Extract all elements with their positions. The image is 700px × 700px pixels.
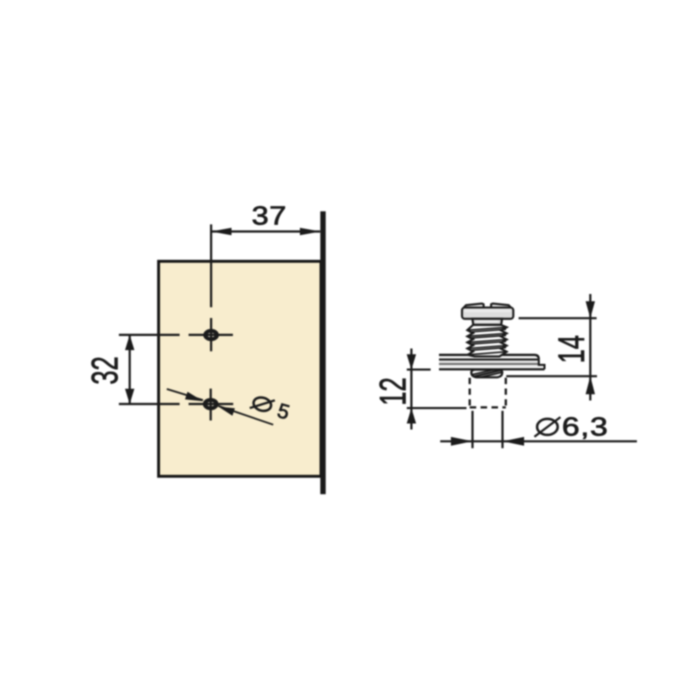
12 extension line top xyxy=(407,369,431,371)
plate seam line xyxy=(439,359,539,361)
svg-text:37: 37 xyxy=(252,202,287,230)
arrow right (left side) xyxy=(451,437,473,446)
extension line from upper hole to 37 dimension xyxy=(210,224,212,307)
14 extension line top xyxy=(519,317,597,319)
dashed hole outline bottom xyxy=(470,406,506,408)
dashed hole outline right xyxy=(505,378,507,408)
screw head highlight xyxy=(465,310,511,312)
plate inner shade band xyxy=(439,360,538,363)
O6,3 extension line right xyxy=(501,411,503,448)
plate right edge and tab xyxy=(539,359,545,369)
dimension line 14 xyxy=(589,294,591,401)
thread flank lines xyxy=(467,327,506,355)
leader line O5 lower segment xyxy=(218,406,273,425)
dimension line O6,3 left tail xyxy=(440,440,472,442)
dimension line 12 xyxy=(410,349,412,430)
arrow left (right side) xyxy=(503,437,525,446)
arrow up 12 (bottom, outside) xyxy=(407,408,416,423)
label O5 xyxy=(248,392,292,425)
lower hole crosshair xyxy=(189,403,234,405)
O6,3 extension line left xyxy=(471,411,473,448)
plate mid gray line xyxy=(439,363,539,365)
plate top edge xyxy=(439,355,539,359)
lower hole xyxy=(205,400,217,408)
arrow up 32 xyxy=(125,335,134,350)
leader arrow pointing at hole (upper-left) xyxy=(185,392,203,401)
upper hole xyxy=(205,331,217,339)
dashed hole outline left xyxy=(469,378,471,408)
12 extension line bottom xyxy=(407,407,467,409)
32 extension line upper xyxy=(119,334,180,336)
arrow up 14 (bottom, outside) xyxy=(586,376,595,394)
plate side view body fill xyxy=(439,355,545,369)
arrow left 37 xyxy=(211,228,231,236)
upper hole crosshair xyxy=(189,334,233,336)
32 extension line lower xyxy=(119,403,180,405)
arrow right 37 xyxy=(300,228,320,236)
svg-text:14: 14 xyxy=(550,335,592,363)
14 extension line bottom xyxy=(506,375,597,377)
svg-text:12: 12 xyxy=(371,377,413,405)
svg-text:6,3: 6,3 xyxy=(562,414,609,442)
dimension line 37 xyxy=(211,230,320,232)
screw head slot right wing xyxy=(491,304,511,308)
mounting plate front view (beige panel) xyxy=(159,261,321,476)
dimension line O6,3 right tail xyxy=(503,440,637,442)
screw head xyxy=(462,308,513,319)
screw head slot left wing xyxy=(464,304,484,308)
arrow down 14 (top, outside) xyxy=(586,301,595,318)
screw collar xyxy=(472,319,502,325)
dimension line 32 xyxy=(129,335,131,404)
arrow down 12 (top, outside) xyxy=(407,354,416,369)
arrow down 32 xyxy=(125,389,134,404)
leader arrow pointing at hole (lower-right) xyxy=(218,407,235,416)
screw thread body xyxy=(467,325,506,357)
svg-text:32: 32 xyxy=(83,356,125,384)
leader line O5 upper segment xyxy=(167,389,203,400)
dimension line O6,3 middle xyxy=(473,440,503,442)
nut thread lines xyxy=(474,370,500,376)
euro screw nut below plate xyxy=(471,370,502,378)
label O6,3 xyxy=(534,414,608,442)
side panel (thick vertical bar) xyxy=(320,211,325,494)
plate bottom edge xyxy=(439,368,545,370)
